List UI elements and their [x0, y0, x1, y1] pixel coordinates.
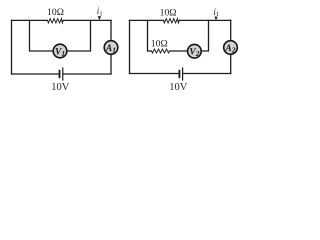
svg-text:10Ω: 10Ω [47, 7, 64, 18]
svg-text:10V: 10V [51, 82, 69, 93]
svg-text:A2: A2 [224, 44, 235, 55]
svg-text:V2: V2 [189, 47, 199, 58]
svg-text:10V: 10V [169, 82, 188, 93]
svg-text:V1: V1 [55, 47, 65, 58]
svg-text:10Ω: 10Ω [151, 38, 168, 49]
svg-text:A1: A1 [105, 44, 116, 55]
svg-text:10Ω: 10Ω [160, 7, 177, 18]
